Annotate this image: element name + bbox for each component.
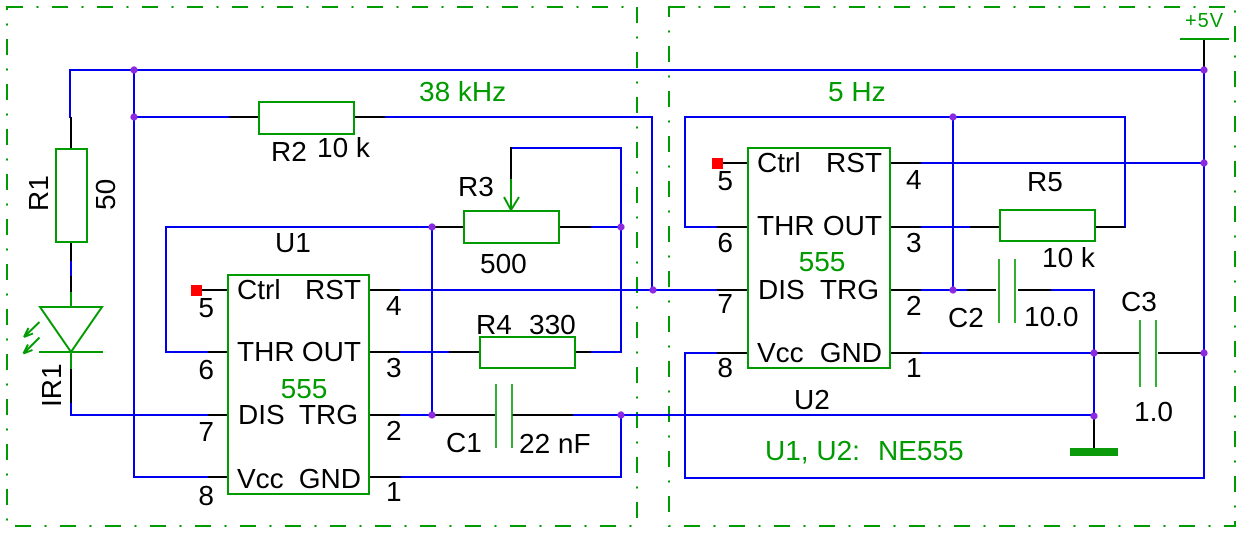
pin: R3 right	[559, 226, 591, 228]
resistor R5	[1000, 210, 1095, 241]
LED IR1 emission arrows	[24, 322, 40, 354]
svg-text:U1, U2:: U1, U2:	[765, 435, 860, 466]
pin: C2 left	[967, 289, 996, 291]
ground	[1070, 448, 1118, 456]
wire: R3 right to R4 right column	[575, 227, 621, 352]
svg-text:R4: R4	[476, 309, 512, 340]
svg-text:2: 2	[386, 415, 402, 446]
pin: R4 right	[575, 351, 591, 353]
svg-text:8: 8	[198, 480, 214, 511]
wire: C1 right to ground node	[572, 414, 1094, 416]
svg-text:GND: GND	[299, 463, 361, 494]
wire: U1 RST to U2 DIS	[400, 289, 718, 291]
node junction x1204 y163	[1200, 159, 1207, 166]
node junction x134 y117	[130, 113, 137, 120]
op-amp U2 chip body	[748, 148, 890, 368]
svg-text:C3: C3	[1121, 286, 1157, 317]
node junction x432 y415	[428, 411, 435, 418]
pin: U1 RST	[369, 289, 400, 291]
pin: U1 THR	[208, 351, 228, 353]
svg-text:3: 3	[386, 352, 402, 383]
svg-text:OUT: OUT	[823, 210, 882, 241]
svg-text:R2: R2	[271, 136, 307, 167]
wire: U1 OUT to R4	[400, 351, 450, 353]
pin: U2 DIS	[717, 289, 748, 291]
node junction x653 y290	[649, 286, 656, 293]
LED IR1	[39, 292, 103, 369]
svg-text:1.0: 1.0	[1134, 396, 1173, 427]
wire: U2 top box	[685, 117, 1125, 227]
capacitor C2	[999, 259, 1015, 323]
pin: R5 left	[970, 226, 1000, 228]
pin: R2 right	[354, 116, 385, 118]
svg-text:Ctrl: Ctrl	[757, 147, 801, 178]
resistor R4	[480, 337, 575, 368]
node junction x134 y70	[130, 66, 137, 73]
wire: +5V top rail	[70, 70, 1204, 118]
svg-text:50: 50	[90, 179, 121, 210]
pin: R1 bottom	[70, 242, 72, 261]
wire: column x=953	[952, 117, 954, 290]
node junction x1204 y70	[1200, 66, 1207, 73]
wire: U2 OUT to R5	[921, 226, 970, 228]
node junction x953 y290	[949, 286, 956, 293]
left panel frame	[7, 7, 637, 526]
wire: R3 wiper net	[511, 148, 621, 227]
svg-text:R3: R3	[458, 171, 494, 202]
wire: U2 TRG to C2	[921, 289, 967, 291]
svg-text:10.0: 10.0	[1024, 301, 1079, 332]
capacitor C1	[496, 384, 512, 448]
svg-text:38 kHz: 38 kHz	[419, 76, 506, 107]
wire: R1 to LED link	[70, 260, 72, 277]
svg-text:C2: C2	[948, 302, 984, 333]
svg-text:U1: U1	[275, 227, 311, 258]
svg-text:R5: R5	[1027, 166, 1063, 197]
svg-text:RST: RST	[826, 147, 882, 178]
svg-text:DIS: DIS	[758, 274, 805, 305]
svg-text:7: 7	[198, 416, 214, 447]
pin: U1 Vcc	[208, 476, 228, 478]
svg-text:NE555: NE555	[878, 435, 964, 466]
svg-text:IR1: IR1	[36, 363, 67, 407]
node junction x1204 y353	[1200, 349, 1207, 356]
unconnected pin cue U2 pin 5	[712, 158, 723, 169]
svg-text:6: 6	[198, 354, 214, 385]
node junction x1094 y416	[1090, 412, 1097, 419]
pin: C1 left	[432, 414, 495, 416]
pin: U2 Vcc	[717, 352, 748, 354]
node junction x621 y415	[617, 411, 624, 418]
resistor R1	[56, 149, 87, 242]
svg-text:5: 5	[198, 292, 214, 323]
svg-text:2: 2	[906, 290, 922, 321]
pin: C1 right	[512, 414, 573, 416]
wire: U1 THR loop	[166, 227, 432, 352]
pin: U2 TRG	[890, 289, 921, 291]
wire: U2 RST to +5V column	[921, 162, 1204, 164]
svg-text:7: 7	[717, 288, 733, 319]
pin: R1 top	[70, 117, 72, 149]
svg-text:10 k: 10 k	[1042, 242, 1096, 273]
pin: R3 wiper top	[510, 147, 512, 180]
node junction x432 y227	[428, 223, 435, 230]
svg-text:Vcc: Vcc	[757, 337, 804, 368]
pin: U1 Ctrl	[197, 289, 228, 291]
svg-text:3: 3	[906, 227, 922, 258]
svg-text:22 nF: 22 nF	[519, 428, 591, 459]
pin: R3 left	[432, 226, 465, 228]
pin: C3 right	[1158, 352, 1204, 354]
pin: U1 TRG	[369, 414, 400, 416]
svg-text:5 Hz: 5 Hz	[828, 76, 886, 107]
pin: ground stub	[1093, 416, 1095, 449]
svg-text:6: 6	[717, 227, 733, 258]
wire: LED to U1 DIS	[71, 402, 209, 415]
pin: U2 RST	[890, 162, 921, 164]
svg-text:4: 4	[386, 290, 402, 321]
svg-text:4: 4	[906, 164, 922, 195]
pin: +5V stub	[1203, 39, 1205, 70]
svg-text:10 k: 10 k	[317, 132, 371, 163]
pin: U2 THR	[717, 226, 748, 228]
pin: C3 left	[1094, 352, 1139, 354]
wire: U1 TRG to C1	[400, 414, 435, 416]
pin: U2 OUT	[890, 226, 921, 228]
capacitor C3	[1140, 320, 1156, 387]
pin: U1 GND	[369, 476, 401, 478]
pin: R2 left	[229, 116, 259, 118]
pin: C2 right	[1018, 289, 1051, 291]
node junction x953 y117	[949, 113, 956, 120]
svg-text:OUT: OUT	[302, 336, 361, 367]
pin: LED bottom	[70, 368, 72, 403]
pin: U1 OUT	[369, 351, 400, 353]
potentiometer R3	[464, 211, 559, 243]
+5V power bar	[1180, 38, 1229, 40]
svg-text:1: 1	[386, 476, 402, 507]
pin: R5 right	[1095, 226, 1125, 228]
wire: R2 right net down to RST/DIS	[384, 117, 652, 290]
pin: U1 DIS	[208, 414, 228, 416]
svg-text:+5V: +5V	[1185, 10, 1224, 32]
wire: U2 GND net	[921, 352, 1094, 354]
svg-text:Ctrl: Ctrl	[237, 274, 281, 305]
svg-text:Vcc: Vcc	[237, 463, 284, 494]
wire: column x=432 THR-TRG	[431, 227, 433, 415]
svg-text:THR: THR	[757, 210, 815, 241]
svg-text:R1: R1	[23, 175, 54, 211]
svg-text:RST: RST	[305, 274, 361, 305]
node junction x1094 y353	[1090, 349, 1097, 356]
pin: U2 GND	[890, 352, 921, 354]
svg-text:U2: U2	[794, 384, 830, 415]
svg-text:330: 330	[529, 309, 576, 340]
resistor R2	[259, 102, 354, 134]
wire: U1 GND loop	[401, 415, 621, 477]
wire: +5V right column loop to U2 Vcc	[685, 70, 1204, 478]
svg-text:GND: GND	[820, 337, 882, 368]
svg-text:500: 500	[480, 248, 527, 279]
wire: Vcc column x=134	[134, 70, 209, 477]
svg-text:TRG: TRG	[820, 274, 879, 305]
svg-text:1: 1	[906, 352, 922, 383]
svg-text:5: 5	[717, 165, 733, 196]
svg-text:C1: C1	[446, 427, 482, 458]
svg-text:8: 8	[717, 352, 733, 383]
potentiometer R3 wiper arrow	[504, 179, 519, 210]
pin: R4 left	[449, 351, 480, 353]
pin: U2 Ctrl	[717, 162, 748, 164]
wire: R2 left net	[134, 116, 230, 118]
wire: C2 right down to ground node	[1050, 290, 1094, 416]
svg-text:DIS: DIS	[238, 399, 285, 430]
pin: LED top	[70, 276, 72, 293]
op-amp U1 chip body	[228, 275, 369, 494]
svg-text:THR: THR	[237, 336, 295, 367]
svg-text:555: 555	[281, 373, 328, 404]
svg-text:555: 555	[799, 246, 846, 277]
right panel frame	[669, 7, 1235, 526]
node junction x621 y227	[617, 223, 624, 230]
unconnected pin cue U1 pin 5	[191, 285, 202, 296]
